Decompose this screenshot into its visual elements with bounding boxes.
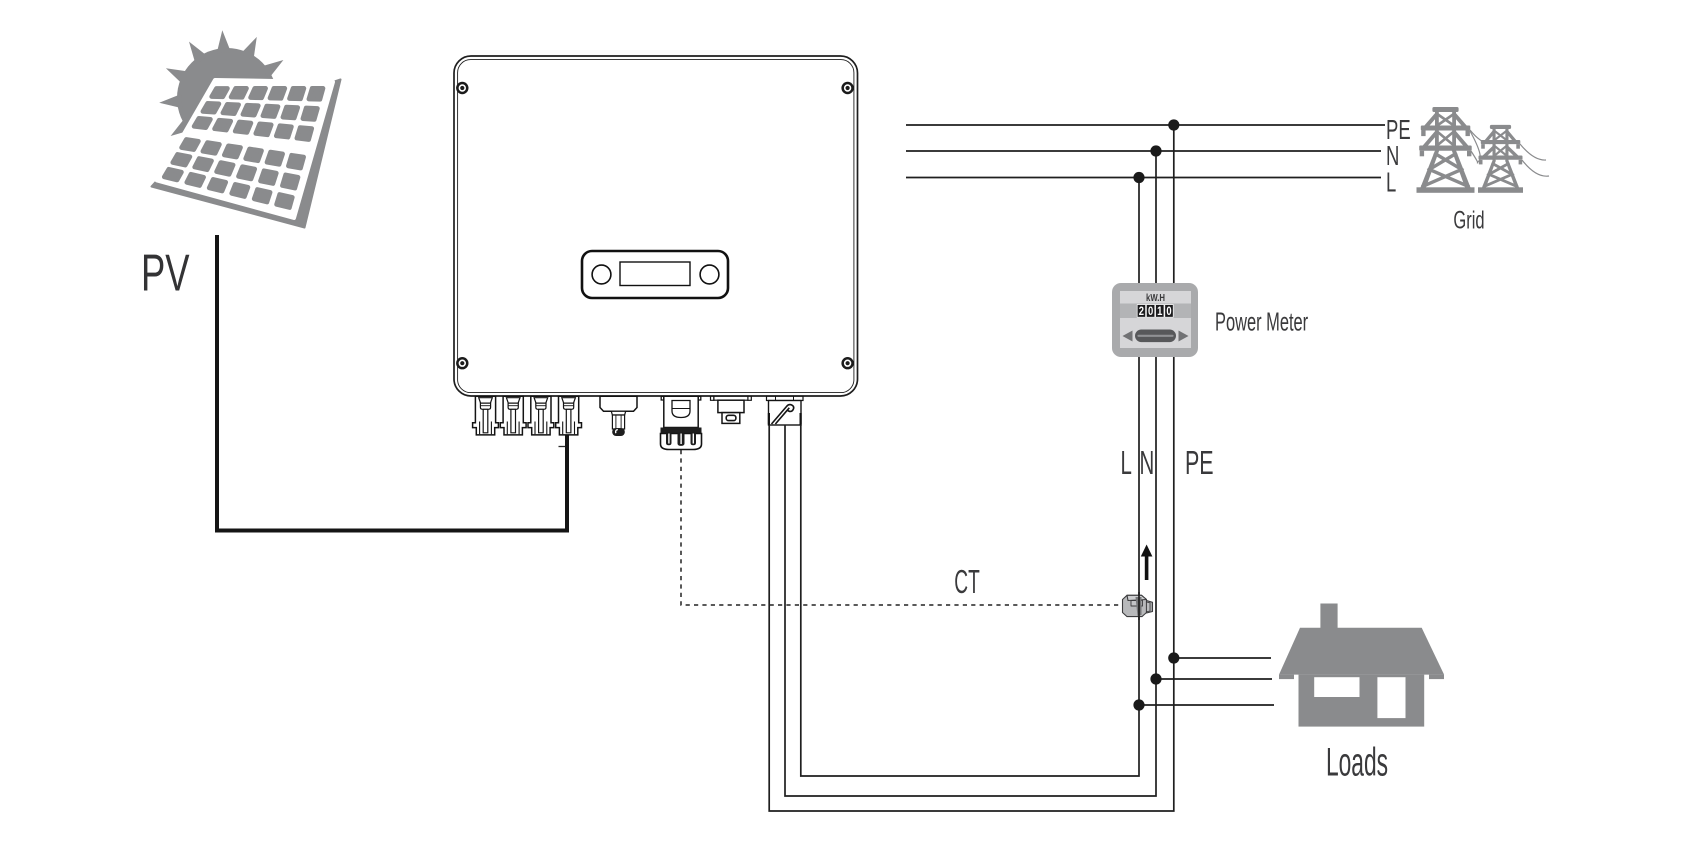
inverter screw bottom-right — [841, 357, 853, 369]
svg-text:0: 0 — [1148, 305, 1153, 318]
inverter screw top-right — [841, 82, 853, 94]
inverter body — [454, 56, 858, 396]
node PE top — [1168, 119, 1179, 130]
loads house icon — [1279, 604, 1444, 727]
svg-text:L: L — [1386, 168, 1396, 199]
connector MC4 PV2 — [500, 396, 526, 435]
grid line N — [906, 150, 1381, 152]
wire PV dc — [217, 235, 567, 531]
wire N — [785, 151, 1156, 796]
node L loads — [1133, 699, 1144, 710]
connector MC4 PV1 — [473, 396, 499, 435]
wire PE — [769, 125, 1174, 811]
wire PV tick — [559, 446, 566, 448]
node PE loads — [1168, 652, 1179, 663]
node N top — [1150, 145, 1161, 156]
svg-text:L: L — [1121, 444, 1132, 481]
connector MC4 PV3 — [528, 396, 554, 435]
inverter screw bottom-left — [456, 357, 468, 369]
loads stub PE — [1174, 657, 1271, 659]
PV array icon: panel — [152, 80, 341, 228]
connector MC4 PV4 — [556, 396, 582, 435]
svg-text:PE: PE — [1185, 444, 1214, 481]
round CT connector — [661, 396, 702, 449]
svg-text:N: N — [1140, 444, 1155, 481]
inverter screw top-left — [456, 82, 468, 94]
grid line PE — [906, 124, 1385, 126]
svg-text:Loads: Loads — [1326, 740, 1388, 784]
tower wires — [1470, 130, 1549, 176]
power meter — [1112, 283, 1198, 357]
grid towers icon — [1417, 107, 1524, 193]
CT clamp on L — [1123, 595, 1153, 616]
square DRM connector — [711, 396, 752, 423]
inverter display — [582, 251, 728, 298]
grid line L — [906, 177, 1381, 179]
svg-text:Power Meter: Power Meter — [1215, 308, 1308, 337]
CT dashed cable — [681, 450, 1124, 605]
antenna connector — [600, 396, 637, 436]
svg-text:0: 0 — [1166, 305, 1171, 318]
current direction arrow — [1141, 545, 1153, 581]
svg-text:PV: PV — [141, 243, 190, 302]
wire L through clamp — [1138, 592, 1140, 620]
node L top — [1133, 172, 1144, 183]
cable hook symbol — [772, 405, 794, 424]
wire L — [801, 178, 1139, 777]
svg-text:1: 1 — [1157, 305, 1162, 318]
PV array icon: sun — [159, 30, 295, 166]
node N loads — [1150, 673, 1161, 684]
svg-text:CT: CT — [954, 564, 980, 601]
AC conduit gland — [767, 396, 804, 425]
loads stub L — [1139, 704, 1274, 706]
svg-text:Grid: Grid — [1453, 207, 1484, 234]
svg-text:2: 2 — [1139, 305, 1144, 318]
svg-text:kW.H: kW.H — [1146, 292, 1165, 303]
loads stub N — [1156, 678, 1272, 680]
